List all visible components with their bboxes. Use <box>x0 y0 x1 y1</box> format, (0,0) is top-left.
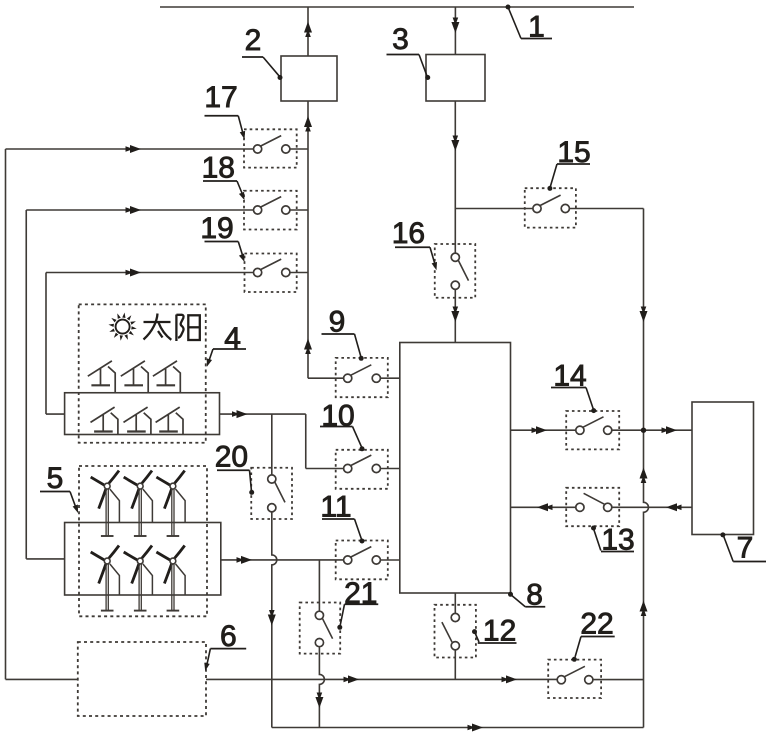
svg-text:2: 2 <box>245 24 262 57</box>
svg-text:19: 19 <box>200 212 233 245</box>
svg-text:17: 17 <box>204 81 237 114</box>
svg-text:20: 20 <box>215 441 248 474</box>
svg-text:16: 16 <box>392 217 425 250</box>
svg-text:5: 5 <box>47 462 64 495</box>
svg-text:3: 3 <box>392 23 409 56</box>
svg-text:7: 7 <box>737 532 754 565</box>
svg-text:18: 18 <box>202 152 235 185</box>
